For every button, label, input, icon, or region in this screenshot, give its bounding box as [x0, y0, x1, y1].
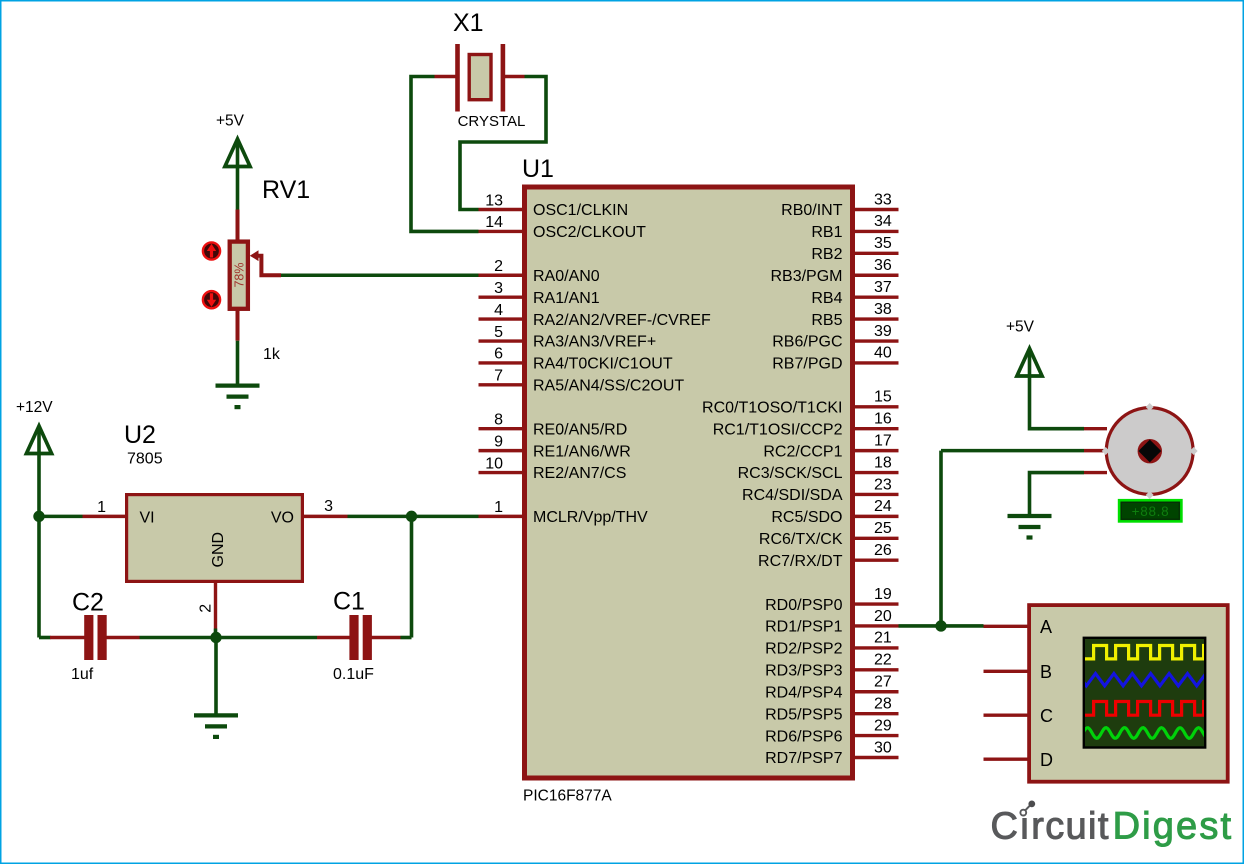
wire center junction to ground: [214, 638, 218, 715]
svg-text:26: 26: [874, 542, 892, 559]
svg-text:3: 3: [324, 498, 333, 515]
node junction VO / C1: [406, 511, 417, 522]
U1 pin 21 RD2/PSP2: [765, 630, 898, 658]
U1 pin 38 RB5: [811, 301, 898, 329]
U1 pin 23 RC4/SDI/SDA: [742, 476, 898, 504]
svg-text:RE2/AN7/CS: RE2/AN7/CS: [533, 465, 626, 482]
svg-text:+5V: +5V: [1006, 319, 1035, 336]
svg-text:OSC2/CLKOUT: OSC2/CLKOUT: [533, 224, 646, 241]
U1 pin 4 RA2/AN2/VREF-/CVREF: [479, 302, 712, 329]
wire center junction to C1: [216, 636, 317, 640]
svg-text:CRYSTAL: CRYSTAL: [458, 113, 526, 130]
ground (RV1): [216, 386, 260, 408]
U1 pin 19 RD0/PSP0: [765, 586, 898, 614]
wire RV1 bottom to ground: [236, 341, 240, 384]
U1 pin 10 RE2/AN7/CS: [479, 455, 627, 482]
svg-text:38: 38: [874, 301, 892, 318]
svg-text:RA4/T0CKI/C1OUT: RA4/T0CKI/C1OUT: [533, 356, 673, 373]
svg-text:25: 25: [874, 520, 892, 537]
node junction +12V / U2 VI: [33, 511, 44, 522]
U1 pin 30 RD7/PSP7: [765, 739, 898, 767]
U1 pin 16 RC1/T1OSI/CCP2: [713, 411, 899, 439]
U1 pin 8 RE0/AN5/RD: [479, 412, 628, 439]
svg-text:2: 2: [494, 258, 503, 275]
U1 pin 39 RB6/PGC: [772, 323, 898, 351]
svg-text:RD3/PSP3: RD3/PSP3: [765, 663, 842, 680]
svg-text:17: 17: [874, 432, 892, 449]
oscilloscope screen: [1084, 638, 1205, 748]
motor pin top: [1084, 427, 1107, 430]
svg-text:33: 33: [874, 191, 892, 208]
U1 pin 27 RD4/PSP4: [765, 674, 898, 702]
U1 pin 15 RC0/T1OSO/T1CKI: [702, 389, 898, 417]
ground (center): [194, 715, 238, 737]
waveform channel A (yellow square): [1081, 646, 1217, 659]
svg-text:RD4/PSP4: RD4/PSP4: [765, 684, 842, 701]
oscilloscope pin C: [984, 714, 1029, 717]
svg-text:37: 37: [874, 279, 892, 296]
U1 pin 17 RC2/CCP1: [763, 432, 898, 460]
ground (motor): [1008, 516, 1052, 538]
oscilloscope pin A: [984, 625, 1029, 628]
svg-text:RC5/SDO: RC5/SDO: [771, 509, 842, 526]
svg-text:RA0/AN0: RA0/AN0: [533, 268, 600, 285]
wire crystal left to U1 pin 14 (OSC2): [411, 77, 479, 232]
wire U1 RD1/PSP1 to oscilloscope A: [899, 624, 984, 628]
svg-text:RC6/TX/CK: RC6/TX/CK: [759, 531, 843, 548]
potentiometer RV1: [203, 210, 281, 341]
wire crystal right to U1 pin 13 (OSC1): [460, 77, 546, 210]
U1 pin 7 RA5/AN4/SS/C2OUT: [479, 368, 685, 395]
svg-text:C2: C2: [72, 589, 104, 617]
svg-text:RB4: RB4: [811, 290, 842, 307]
svg-text:23: 23: [874, 476, 892, 493]
wire U2 pin 2 to center junction: [214, 629, 218, 639]
U1 pin 40 RB7/PGD: [772, 345, 898, 373]
svg-text:A: A: [1040, 617, 1052, 637]
svg-text:22: 22: [874, 652, 892, 669]
U1 pin 6 RA4/T0CKI/C1OUT: [479, 346, 673, 373]
U1 pin 29 RD6/PSP6: [765, 717, 898, 745]
crystal X1: [435, 44, 525, 112]
wire U2 VO to MCLR net: [348, 515, 479, 519]
U1 pin 28 RD5/PSP5: [765, 695, 898, 723]
svg-text:34: 34: [874, 213, 892, 230]
motor body: [1106, 408, 1193, 495]
U1 pin 14 OSC2/CLKOUT: [479, 214, 647, 241]
capacitor C1: [317, 615, 401, 660]
regulator U2 7805: [83, 495, 348, 629]
voltmeter display +88.8: [1119, 500, 1181, 521]
oscilloscope pin B: [984, 670, 1029, 673]
wire RD1/RC2 net vertical: [939, 451, 943, 626]
svg-text:RB7/PGD: RB7/PGD: [772, 356, 842, 373]
svg-text:29: 29: [874, 717, 892, 734]
node junction center ground: [210, 632, 221, 643]
svg-text:36: 36: [874, 257, 892, 274]
svg-text:RB3/PGM: RB3/PGM: [770, 268, 842, 285]
svg-text:RC2/CCP1: RC2/CCP1: [763, 443, 842, 460]
motor pin middle: [1084, 449, 1107, 452]
U1 pin 25 RC6/TX/CK: [759, 520, 899, 548]
waveform channel B (blue triangle): [1068, 674, 1206, 686]
svg-text:RV1: RV1: [262, 176, 310, 204]
U1 pin 26 RC7/RX/DT: [758, 542, 898, 570]
U1 pin 35 RB2: [811, 235, 898, 263]
svg-text:RD5/PSP5: RD5/PSP5: [765, 706, 842, 723]
power +5V (RV1): [225, 139, 250, 167]
svg-text:21: 21: [874, 630, 892, 647]
U1 pin 22 RD3/PSP3: [765, 652, 898, 680]
svg-text:MCLR/Vpp/THV: MCLR/Vpp/THV: [533, 509, 648, 526]
svg-text:RC1/T1OSI/CCP2: RC1/T1OSI/CCP2: [713, 421, 843, 438]
U1 pin 3 RA1/AN1: [479, 280, 600, 307]
motor pin bottom: [1084, 471, 1107, 474]
svg-text:RB5: RB5: [811, 312, 842, 329]
wire +12V rail down: [37, 454, 41, 638]
wire +12V rail to C2: [39, 636, 51, 640]
wire +5V to RV1: [236, 167, 240, 210]
motor border notches: [1146, 403, 1154, 411]
svg-text:Cırcuit: Cırcuit: [991, 806, 1110, 848]
svg-text:+5V: +5V: [216, 113, 245, 130]
svg-text:U1: U1: [522, 155, 554, 183]
U1 pin 37 RB4: [811, 279, 898, 307]
svg-text:10: 10: [485, 455, 503, 472]
wire RV1 wiper to U1 pin 2 (RA0): [281, 273, 479, 277]
motor shaft diamond: [1138, 440, 1161, 463]
svg-text:X1: X1: [453, 9, 484, 37]
svg-text:RB2: RB2: [811, 246, 842, 263]
svg-text:+88.8: +88.8: [1132, 504, 1170, 519]
svg-text:C1: C1: [333, 588, 365, 616]
U1 pin 1 MCLR/Vpp/THV: [479, 499, 649, 526]
svg-text:6: 6: [494, 346, 503, 363]
wire C2 to center junction: [140, 636, 217, 640]
svg-text:PIC16F877A: PIC16F877A: [523, 788, 612, 805]
svg-text:RC4/SDI/SDA: RC4/SDI/SDA: [742, 487, 843, 504]
power +12V: [26, 426, 51, 454]
svg-text:3: 3: [494, 280, 503, 297]
svg-text:RA1/AN1: RA1/AN1: [533, 290, 600, 307]
svg-text:RB6/PGC: RB6/PGC: [772, 334, 842, 351]
svg-text:RA5/AN4/SS/C2OUT: RA5/AN4/SS/C2OUT: [533, 378, 684, 395]
svg-text:RE0/AN5/RD: RE0/AN5/RD: [533, 421, 627, 438]
svg-text:1uf: 1uf: [71, 666, 94, 683]
svg-text:VI: VI: [140, 510, 155, 527]
U1 pin 18 RC3/SCK/SCL: [738, 454, 899, 482]
svg-text:27: 27: [874, 674, 892, 691]
wire C1 branch down: [410, 516, 414, 637]
wire +5V down to motor top terminal: [1030, 377, 1085, 429]
svg-text:0.1uF: 0.1uF: [333, 666, 374, 683]
U1 pin 20 RD1/PSP1: [765, 608, 898, 636]
microcontroller U1 PIC16F877A body: [525, 187, 853, 778]
svg-text:RD7/PSP7: RD7/PSP7: [765, 750, 842, 767]
svg-text:2: 2: [198, 604, 215, 613]
U1 pin 33 RB0/INT: [781, 191, 898, 219]
svg-text:RD1/PSP1: RD1/PSP1: [765, 619, 842, 636]
CircuitDigest logo: [991, 801, 1234, 848]
U1 pin 24 RC5/SDO: [771, 498, 898, 526]
svg-text:39: 39: [874, 323, 892, 340]
svg-text:VO: VO: [271, 510, 294, 527]
svg-text:7805: 7805: [127, 451, 163, 468]
svg-text:B: B: [1040, 662, 1052, 682]
svg-text:35: 35: [874, 235, 892, 252]
node junction RD1 net: [935, 620, 946, 631]
svg-text:5: 5: [494, 324, 503, 341]
svg-text:OSC1/CLKIN: OSC1/CLKIN: [533, 202, 628, 219]
svg-text:30: 30: [874, 739, 892, 756]
U1 pin 34 RB1: [811, 213, 898, 241]
capacitor C2: [50, 615, 140, 660]
svg-text:1: 1: [97, 499, 106, 516]
svg-text:15: 15: [874, 389, 892, 406]
svg-text:RA2/AN2/VREF-/CVREF: RA2/AN2/VREF-/CVREF: [533, 312, 711, 329]
svg-text:8: 8: [494, 412, 503, 429]
svg-text:RC3/SCK/SCL: RC3/SCK/SCL: [738, 465, 843, 482]
svg-text:U2: U2: [124, 421, 156, 449]
svg-text:RE1/AN6/WR: RE1/AN6/WR: [533, 443, 631, 460]
svg-text:78%: 78%: [233, 262, 247, 287]
svg-text:RA3/AN3/VREF+: RA3/AN3/VREF+: [533, 334, 656, 351]
svg-text:19: 19: [874, 586, 892, 603]
svg-text:RC0/T1OSO/T1CKI: RC0/T1OSO/T1CKI: [702, 399, 842, 416]
U1 pin 9 RE1/AN6/WR: [479, 433, 631, 460]
svg-text:24: 24: [874, 498, 892, 515]
svg-text:RB0/INT: RB0/INT: [781, 202, 843, 219]
U1 pin 13 OSC1/CLKIN: [479, 192, 629, 219]
oscilloscope body: [1029, 605, 1228, 782]
svg-text:40: 40: [874, 345, 892, 362]
svg-text:1: 1: [494, 499, 503, 516]
U1 pin 5 RA3/AN3/VREF+: [479, 324, 657, 351]
svg-text:RD6/PSP6: RD6/PSP6: [765, 728, 842, 745]
svg-text:Digest: Digest: [1113, 806, 1234, 848]
svg-text:GND: GND: [210, 532, 227, 568]
svg-text:RC7/RX/DT: RC7/RX/DT: [758, 553, 843, 570]
svg-text:D: D: [1040, 750, 1053, 770]
power +5V (motor): [1017, 349, 1042, 377]
svg-text:RD0/PSP0: RD0/PSP0: [765, 597, 842, 614]
waveform channel C (red square): [1081, 702, 1217, 716]
svg-text:9: 9: [494, 433, 503, 450]
svg-text:18: 18: [874, 454, 892, 471]
svg-text:+12V: +12V: [16, 399, 53, 416]
U1 pin 36 RB3/PGM: [770, 257, 898, 285]
wire to motor middle terminal: [941, 449, 1084, 453]
wire +12V to U2 VI: [39, 515, 83, 519]
svg-text:28: 28: [874, 695, 892, 712]
svg-text:7: 7: [494, 368, 503, 385]
motor hub: [1138, 439, 1162, 463]
svg-text:13: 13: [485, 192, 503, 209]
svg-text:RD2/PSP2: RD2/PSP2: [765, 641, 842, 658]
wire motor bottom terminal to ground: [1030, 473, 1085, 515]
U1 pin 2 RA0/AN0: [479, 258, 600, 285]
oscilloscope pin D: [984, 758, 1029, 761]
svg-text:C: C: [1040, 706, 1053, 726]
svg-text:16: 16: [874, 411, 892, 428]
svg-text:1k: 1k: [263, 346, 281, 363]
svg-text:20: 20: [874, 608, 892, 625]
waveform channel D (green sine): [1081, 728, 1207, 739]
svg-text:14: 14: [485, 214, 503, 231]
svg-text:RB1: RB1: [811, 224, 842, 241]
svg-text:4: 4: [494, 302, 503, 319]
